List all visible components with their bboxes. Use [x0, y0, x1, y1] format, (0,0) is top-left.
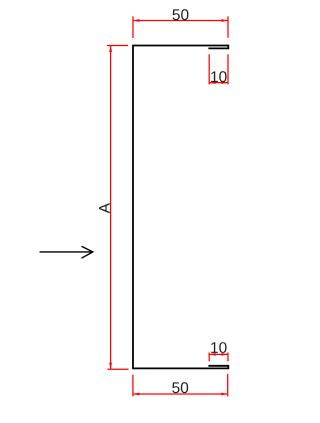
dimension: bottom 10 (hem) — [209, 342, 228, 361]
arrowhead left — [209, 353, 216, 356]
extension line right (x=227.7) — [227, 16, 229, 38]
profile outline (C-channel with top and bottom hems) — [133, 46, 228, 369]
arrowhead down — [109, 363, 112, 370]
label 10 — [211, 71, 226, 82]
arrowhead left — [209, 81, 216, 84]
dimension line — [133, 20, 228, 22]
arrowhead up — [109, 46, 112, 53]
extension line left (x=133) — [132, 16, 134, 38]
view direction arrow (black, pointing right) — [40, 246, 93, 258]
extension line right (x=228.1) — [227, 54, 229, 84]
dimension: top 10 (hem) — [209, 54, 228, 84]
dimension: bottom 50 — [133, 374, 228, 397]
extension line left (x=209.2) — [208, 353, 210, 362]
arrowhead right — [221, 393, 228, 396]
arrowhead right — [222, 81, 229, 84]
extension line left (x=132.7) — [132, 375, 134, 397]
dimension: top 50 — [133, 9, 228, 38]
label 50 — [173, 9, 189, 20]
arrowhead right — [222, 19, 229, 22]
dimension line — [209, 82, 228, 84]
dimension line — [209, 353, 228, 355]
dimension: left A (profile height) — [99, 46, 128, 370]
label 10 — [211, 342, 226, 353]
arrowhead left — [133, 19, 140, 22]
label 50 — [172, 382, 188, 393]
extension line bottom (y=369.3) — [108, 368, 129, 370]
arrowhead left — [133, 393, 140, 396]
extension line top (y=45.5) — [107, 45, 128, 47]
arrowhead right — [222, 353, 229, 356]
extension line right (x=228.1) — [227, 353, 229, 362]
dimension line — [110, 46, 112, 370]
label A (rotated) — [99, 203, 110, 213]
extension line right (x=227.4) — [227, 374, 229, 397]
dimension line — [133, 393, 228, 395]
extension line left (x=209.2) — [208, 54, 210, 84]
